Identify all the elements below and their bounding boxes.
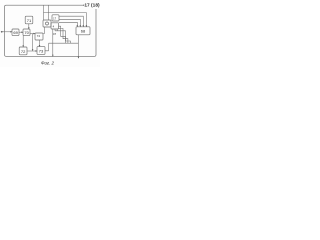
wire branch down to 72-73 link — [32, 34, 34, 51]
arrowhead into 70 — [21, 31, 23, 33]
svg-text:17: 17 — [53, 16, 56, 20]
arrowhead long down — [52, 55, 54, 57]
box 47 — [51, 23, 59, 29]
enclosure 17(18) boundary — [5, 5, 96, 56]
box 74 — [35, 33, 43, 40]
svg-text:73: 73 — [39, 48, 44, 53]
wire long down — [52, 29, 54, 57]
svg-text:70: 70 — [24, 30, 29, 35]
svg-text:71: 71 — [27, 18, 32, 23]
arrowhead bus1 into 68 — [86, 25, 88, 27]
wire 71 to 70 — [28, 24, 30, 29]
arrowhead 71 into 70 — [28, 27, 30, 29]
arrowhead into 69 — [10, 31, 12, 33]
arrowhead into 74 — [33, 33, 35, 35]
arrowhead bus4 into 68 — [77, 25, 79, 27]
svg-text:69: 69 — [13, 30, 18, 35]
wire bus4 to 68 — [59, 22, 78, 26]
wire bus1 to 68 — [44, 13, 87, 27]
wire bus2 to 68 — [59, 16, 83, 26]
arrowhead 74 into 73 — [39, 45, 41, 47]
box upper of pair — [52, 15, 59, 21]
tick top border end — [83, 5, 85, 6]
box 72 — [19, 47, 27, 55]
arrowhead bus2 into 68 — [83, 25, 85, 27]
wire 74 to 73 — [39, 40, 41, 47]
wire staircase 2 — [59, 28, 68, 43]
arrowhead branch down — [32, 49, 34, 51]
svg-text:68: 68 — [81, 29, 86, 34]
svg-text:47: 47 — [53, 32, 57, 36]
box 69 — [12, 29, 19, 36]
svg-text:Фиг. 2: Фиг. 2 — [41, 61, 55, 66]
svg-text:74: 74 — [37, 34, 41, 38]
box 68 — [76, 27, 90, 35]
svg-text:17 (18): 17 (18) — [84, 3, 100, 9]
box 71 — [25, 16, 33, 24]
box 73 — [37, 47, 45, 55]
box 70 — [23, 29, 30, 36]
wire 69 to 70 — [19, 31, 23, 33]
svg-text:72: 72 — [21, 49, 26, 54]
wire 68 output down — [77, 35, 79, 58]
circle symbol — [46, 22, 49, 25]
wire bus3 to 68 — [59, 19, 80, 26]
wire staircase 3 — [55, 29, 70, 43]
arrowhead into 72 — [22, 45, 24, 47]
arrowhead bus3 into 68 — [80, 25, 82, 27]
wire 73 right stub — [45, 43, 49, 51]
arrowhead input — [1, 31, 3, 33]
box with circle symbol — [43, 20, 51, 27]
wire top feed right — [48, 5, 50, 20]
wire merge bus — [49, 42, 79, 44]
arrowhead 68 output — [78, 57, 80, 59]
wire P1 to 74 — [43, 27, 44, 33]
wire 70 to 72 — [22, 36, 24, 47]
wire input left — [1, 31, 12, 33]
wire staircase 1 — [59, 26, 66, 43]
wire 72 to 73 — [27, 50, 37, 52]
arrowhead into 73 left — [35, 50, 37, 52]
wire 70 to 74 — [30, 33, 35, 35]
wire top feed left — [43, 5, 45, 20]
